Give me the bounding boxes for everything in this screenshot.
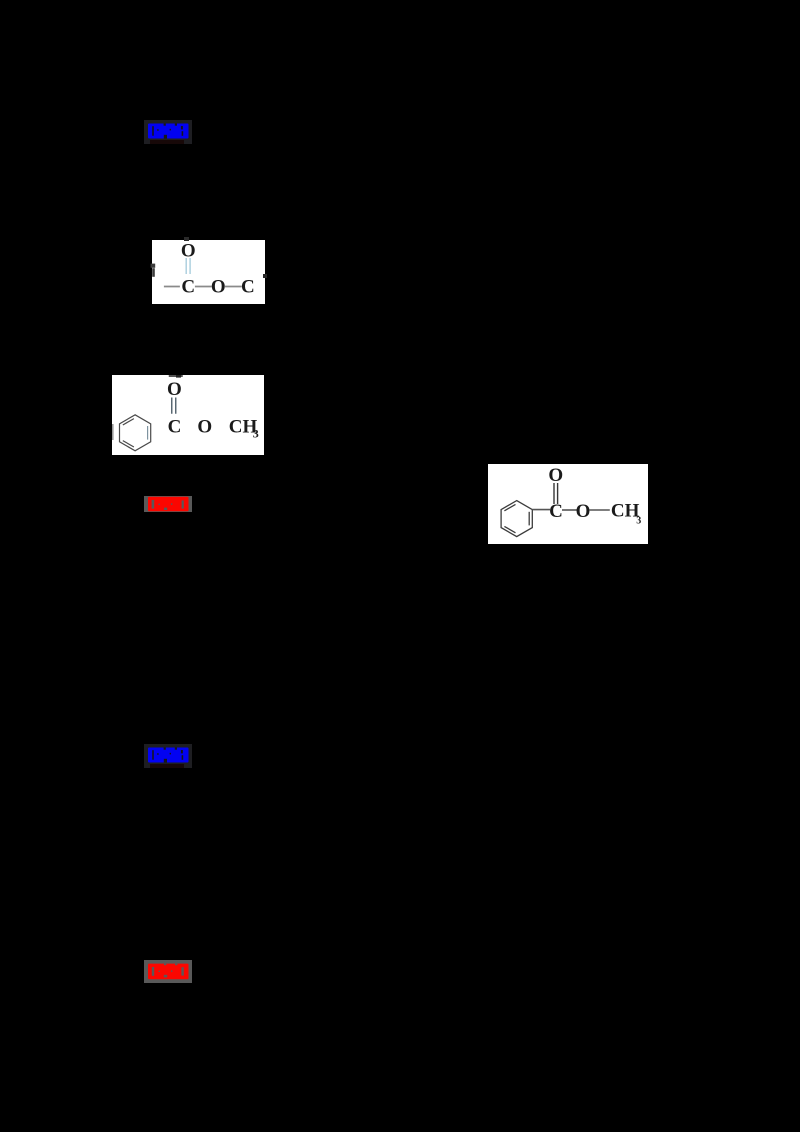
faint artifact under blue badge 1 [150,140,184,144]
svg-text:O: O [210,276,225,297]
svg-text:O: O [197,416,212,437]
svg-text:O: O [576,501,591,522]
formula image 2: C6H5 / C=O / O / CH3 (no horizontal bonds) [112,375,264,455]
label badge: red 【答案】 #1 [144,496,192,512]
double bond C=O [554,483,558,504]
bond O-C [224,286,241,288]
stray glyph fragment left of image 1 [150,263,157,278]
bond C-O [562,509,578,511]
bond O-CH3 [589,509,610,511]
bond (left stub) [163,286,179,288]
aromatic double bonds [504,504,515,510]
aromatic double bonds [123,419,134,425]
svg-text:C: C [241,277,255,298]
faint artifact under blue badge 2 [150,764,184,768]
double bond C=O [172,398,176,414]
benzene ring [501,501,532,537]
formula image 1: ester group -C(=O)-O-C [152,240,265,304]
svg-text:O: O [180,240,195,261]
stray gray strip on left edge [112,424,114,440]
label badge: blue 【解析】 #2 [144,744,192,768]
stray dark dash right of image 1 [263,274,267,278]
svg-text:3: 3 [636,516,641,527]
svg-text:3: 3 [253,427,259,441]
label badge: red 【答案】 #2 [144,960,192,983]
svg-text:C: C [549,501,563,522]
svg-text:O: O [548,465,563,486]
svg-text:C: C [168,417,182,438]
svg-text:O: O [167,379,182,400]
stray notch on top edge of image 1 [184,237,189,242]
label badge: blue 【解析】 #1 [144,120,192,144]
smudge on top edge [169,375,183,377]
svg-text:C: C [181,277,195,298]
formula image 3: methyl benzoate C6H5-C(=O)-O-CH3 [488,464,648,544]
bond ring-C [532,509,550,511]
bond C-O [194,286,211,288]
benzene ring [120,415,151,451]
double bond C=O [186,258,190,274]
